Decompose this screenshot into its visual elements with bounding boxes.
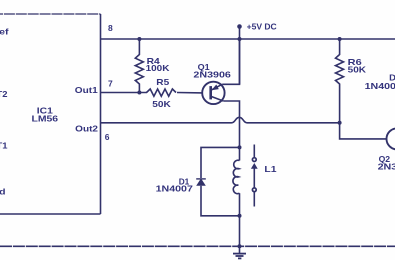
relay contact top lead — [253, 145, 255, 158]
transistor Q1 emitter arrow — [211, 85, 218, 91]
node junction R4 top — [137, 37, 141, 41]
node junction R6 top — [338, 37, 342, 41]
svg-text:1N4007: 1N4007 — [156, 184, 194, 194]
wire bottom ground rail — [0, 245, 395, 247]
resistor R5 50K horizontal — [147, 89, 177, 96]
node junction R6/Out2 — [338, 121, 342, 125]
svg-text:8: 8 — [108, 23, 113, 33]
wire coil bottom to ground rail — [239, 216, 241, 247]
transistor Q2 circle (cut off at edge) — [387, 128, 395, 149]
relay contact terminal circles — [252, 158, 256, 192]
svg-text:2N3906: 2N3906 — [193, 69, 231, 79]
ground symbol — [239, 246, 241, 253]
wire R5 to Q1 base — [177, 92, 203, 94]
svg-text:Gnd: Gnd — [0, 187, 6, 197]
svg-text:+5V DC: +5V DC — [247, 21, 277, 31]
wire Out2 pin6 with hop over collector wire — [101, 117, 340, 123]
node junction relay top — [238, 145, 242, 149]
svg-text:100K: 100K — [146, 63, 171, 73]
svg-text:Out1: Out1 — [75, 85, 98, 95]
inductor L1 relay coil — [239, 147, 241, 160]
resistor R4 100K vertical — [135, 39, 143, 93]
wire R6 junction down to Q2 base — [340, 123, 387, 139]
relay contact blade — [253, 167, 255, 188]
node junction +5V rail — [238, 37, 242, 41]
wire +5V rail junction — [239, 39, 241, 84]
wire Q1 emitter to +5V vertical — [222, 27, 239, 85]
svg-text:T1: T1 — [0, 141, 8, 151]
wire Q1 collector down to relay — [223, 101, 239, 147]
svg-text:R5: R5 — [156, 77, 169, 87]
wire Out1 pin7 to R5 — [101, 92, 148, 94]
svg-text:50K: 50K — [348, 65, 367, 75]
transistor Q1 collector diagonal — [211, 96, 224, 101]
wire D1 anode to bottom junction — [201, 186, 240, 216]
node junction R4/R5 — [137, 91, 141, 95]
transistor Q1 emitter diagonal — [211, 84, 223, 90]
svg-text:6: 6 — [105, 132, 110, 142]
wire relay top junction to D1 branch — [201, 147, 240, 178]
node junction ground rail — [238, 244, 242, 248]
relay contact arrow — [251, 163, 258, 169]
svg-text:1N4007: 1N4007 — [365, 81, 395, 91]
wire pin8 +5V top rail — [101, 38, 395, 40]
svg-text:LM56: LM56 — [32, 114, 59, 124]
svg-text:7: 7 — [108, 79, 113, 89]
svg-text:Vref: Vref — [0, 27, 9, 37]
svg-text:L1: L1 — [264, 164, 276, 174]
svg-text:T2: T2 — [0, 89, 8, 99]
svg-text:Out2: Out2 — [75, 123, 98, 133]
node junction relay bottom — [238, 214, 242, 218]
transistor Q1 2N3906 circle — [202, 82, 224, 104]
svg-text:2N3906: 2N3906 — [378, 162, 395, 172]
diode D1 1N4007 symbol — [196, 178, 206, 185]
resistor R6 50K vertical — [336, 39, 344, 123]
relay contact bottom lead — [253, 192, 255, 206]
node +5V terminal dot — [237, 24, 242, 29]
transistor Q1 base bar — [209, 86, 212, 99]
svg-text:50K: 50K — [152, 99, 172, 109]
